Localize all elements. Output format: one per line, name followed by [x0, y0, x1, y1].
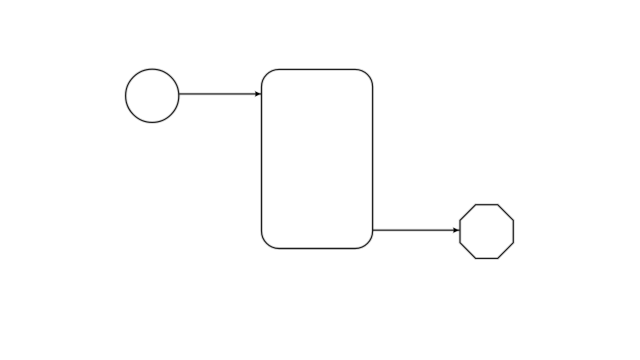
node stop (octagon) — [460, 205, 513, 259]
arrowhead into octagon — [453, 228, 458, 233]
node start (circle) — [126, 69, 179, 122]
wire from rectangle to octagon — [373, 229, 460, 232]
node process (rounded rectangle) — [262, 69, 373, 248]
arrowhead into rectangle — [255, 91, 260, 96]
wire from circle to rectangle — [179, 92, 261, 95]
